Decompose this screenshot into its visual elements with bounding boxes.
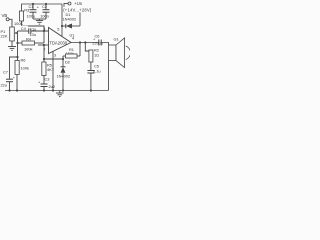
resistor R5 4K7	[42, 62, 54, 84]
wire pin 3 to ground rail	[52, 51, 54, 90]
svg-text:1N4002: 1N4002	[57, 74, 71, 79]
node D1 cathode	[61, 25, 63, 27]
terminal VB	[2, 13, 10, 21]
wire V+ riser to pin 5 and D1 cathode	[61, 4, 63, 37]
svg-text:G1: G1	[114, 36, 119, 41]
svg-text:22u: 22u	[1, 83, 8, 88]
node +input	[43, 30, 45, 32]
wire VB to potentiometer	[9, 19, 12, 27]
svg-text:D2: D2	[65, 59, 70, 64]
wire +Us feed down to D1 anode	[64, 4, 80, 27]
svg-text:4K7: 4K7	[47, 67, 54, 72]
wire speaker return	[108, 61, 110, 91]
capacitor C2 100n	[40, 4, 49, 19]
svg-text:TDA2030: TDA2030	[49, 40, 67, 45]
wire wiper node riser	[17, 31, 19, 61]
svg-text:1Ω: 1Ω	[94, 53, 99, 58]
svg-text:+Us: +Us	[74, 1, 83, 6]
wire R4 right riser to +input	[43, 31, 45, 43]
resistor R4 100k	[18, 37, 45, 52]
node rail R6	[16, 89, 18, 91]
wire C1 C2 to ground	[33, 18, 46, 20]
node R4 left	[16, 42, 18, 44]
resistor R1 150k feedback	[63, 47, 80, 58]
svg-text:+: +	[13, 75, 16, 80]
node feedback	[43, 58, 45, 60]
resistor R3 100K	[14, 8, 29, 26]
svg-text:+: +	[37, 5, 40, 10]
wire bottom ground rail	[5, 90, 109, 92]
svg-text:100k: 100k	[24, 47, 32, 52]
diode D2 1N4002	[57, 56, 71, 91]
node rail D2	[62, 89, 64, 91]
ground on bottom rail	[56, 91, 64, 97]
svg-text:4: 4	[72, 36, 75, 41]
wire -input node riser to R5	[43, 45, 45, 62]
wire D1 leads	[62, 25, 66, 27]
svg-text:2u2: 2u2	[49, 84, 56, 89]
wire -input pin 2	[38, 44, 49, 46]
wire output	[71, 42, 99, 44]
capacitor C5 0,1u	[87, 64, 100, 91]
svg-text:C4: C4	[21, 26, 27, 31]
diode D1 1N4002	[63, 12, 77, 29]
wire pot bottom	[11, 41, 13, 47]
svg-text:100n: 100n	[40, 14, 49, 19]
svg-text:5: 5	[57, 27, 59, 32]
loudspeaker G1	[109, 36, 131, 67]
terminal +Us	[64, 1, 83, 6]
capacitor C7 22u	[1, 57, 18, 91]
wire R3 bottom jog to +input node	[22, 21, 45, 31]
resistor R6 100k	[15, 58, 29, 91]
node -input	[43, 44, 45, 46]
svg-text:(+14V...+28V): (+14V...+28V)	[63, 8, 92, 13]
ground below potentiometer	[8, 47, 16, 51]
node rail C3	[43, 89, 45, 91]
svg-text:100u: 100u	[27, 14, 36, 19]
capacitor C4 1u	[18, 26, 37, 37]
node rail C7	[8, 89, 10, 91]
capacitor C1 100u	[27, 4, 40, 19]
potentiometer P1 22K	[1, 27, 18, 41]
node rail pin3	[52, 89, 54, 91]
supply range label	[63, 7, 95, 13]
node C7 branch	[16, 56, 18, 58]
svg-text:R6: R6	[21, 58, 26, 63]
node rail C5	[90, 89, 92, 91]
wire top V+ rail	[22, 4, 63, 11]
wire output to speaker	[101, 43, 108, 46]
op-amp U1 TDA2030	[43, 26, 75, 58]
svg-text:VB: VB	[2, 13, 8, 18]
svg-text:1N4002: 1N4002	[63, 17, 77, 22]
svg-text:C7: C7	[3, 69, 8, 74]
capacitor C3 2u2	[38, 76, 55, 90]
node output boucherot	[84, 41, 86, 43]
node top rail C2	[45, 3, 47, 5]
svg-text:22K: 22K	[1, 34, 8, 39]
svg-text:0,1u: 0,1u	[93, 68, 101, 73]
resistor R2 1 ohm	[85, 43, 99, 71]
wire feedback node	[44, 58, 63, 60]
wire feedback riser to output	[79, 43, 81, 57]
node D2 top	[62, 58, 64, 60]
svg-text:100k: 100k	[21, 66, 29, 71]
wire C4 to +input pin 1	[31, 30, 49, 32]
node top rail C1	[32, 3, 34, 5]
ground below C1 C2	[36, 19, 43, 24]
capacitor C6 2200u	[92, 33, 103, 45]
node output feedback	[79, 41, 81, 43]
svg-text:3: 3	[54, 53, 56, 58]
svg-text:C3: C3	[45, 76, 50, 81]
